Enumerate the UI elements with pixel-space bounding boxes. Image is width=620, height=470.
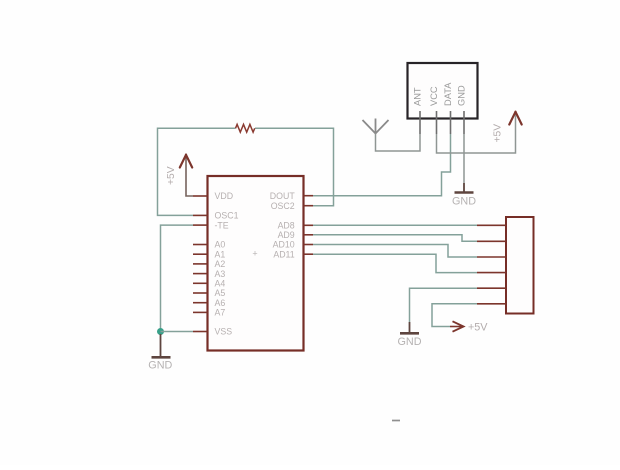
svg-text:+5V: +5V [468,322,488,334]
connector pin 3 [477,256,506,258]
RF module pin DATA [450,111,452,134]
RF module body [408,63,478,119]
junction dot [157,328,164,335]
svg-text:VSS: VSS [215,327,233,337]
IC pin DOUT [304,195,314,197]
resistor R1 [236,124,255,132]
wire OSC1 to resistor (left loop) [158,128,236,215]
svg-text:OSC2: OSC2 [271,201,295,211]
svg-text:GND: GND [148,360,172,372]
svg-text:A3: A3 [215,269,226,279]
svg-text:OSC1: OSC1 [215,211,239,221]
IC pin -TE [193,224,208,226]
IC pin A1 [193,253,208,255]
connector pin 1 [477,224,506,226]
IC pin A2 [193,263,208,265]
svg-text:ANT: ANT [413,87,423,106]
svg-text:AD9: AD9 [278,230,295,240]
IC pin A7 [193,311,208,313]
RF module pin ANT [419,111,421,134]
wire resistor to OSC2 (right riser) [255,128,334,205]
connector SV1 body [506,217,534,314]
svg-text:VDD: VDD [215,191,234,201]
svg-text:A4: A4 [215,279,226,289]
svg-text:+5V: +5V [166,166,177,185]
svg-text:+5V: +5V [493,124,504,143]
connector pin 2 [477,240,506,242]
svg-text:GND: GND [452,196,476,208]
wire AD9 to pin 2 [313,235,477,242]
RF module pin VCC [436,111,438,134]
ground GND (left) [152,334,171,359]
connector pin 4 [477,272,506,274]
IC pin A6 [193,302,208,304]
wire junction to VSS [161,331,194,333]
connector pin 6 [477,303,506,305]
svg-text:-TE: -TE [215,220,229,230]
wire AD8 to pin 1 [313,224,477,226]
svg-text:DATA: DATA [443,82,453,106]
wire ANT to antenna [376,134,421,152]
IC pin A4 [193,282,208,284]
RF module pin GND [463,111,465,134]
stray mark [392,420,400,422]
svg-text:+: + [252,249,257,259]
antenna E1 [363,119,389,134]
IC pin A3 [193,273,208,275]
svg-text:A6: A6 [215,298,226,308]
wire VDD to +5V [186,154,193,197]
svg-text:A2: A2 [215,259,226,269]
IC pin VDD [193,195,208,197]
IC pin AD8 [304,224,314,226]
wire pin 5 to GND [410,288,478,322]
ground GND (module) [455,183,474,194]
+5V supply arrow (VCC) [509,112,521,125]
+5V supply arrow (VDD) [180,155,192,168]
connector pin 5 [477,287,506,289]
+5V supply arrow (right-pointing) [450,321,464,331]
svg-text:GND: GND [398,336,422,348]
IC pin OSC2 [304,205,314,207]
wire AD11 to pin 4 [313,254,477,272]
svg-text:A5: A5 [215,288,226,298]
wire AD10 to pin 3 [313,245,477,258]
IC pin A5 [193,292,208,294]
ground GND (middle) [400,322,419,335]
encoder IC U1 body [208,176,304,351]
wire pin 6 to +5V [432,304,477,327]
wire DOUT to DATA [313,134,451,196]
svg-text:A7: A7 [215,308,226,318]
wire -TE down [161,225,194,331]
IC pin AD10 [304,244,314,246]
svg-text:AD10: AD10 [273,240,295,250]
IC pin AD9 [304,234,314,236]
wire VCC to +5V [437,112,516,154]
wire module GND down [463,134,465,183]
svg-text:AD11: AD11 [273,249,294,259]
svg-text:A0: A0 [215,240,226,250]
IC pin OSC1 [193,214,208,216]
IC pin VSS [193,331,208,333]
svg-text:A1: A1 [215,249,226,259]
IC pin AD11 [304,253,314,255]
svg-text:GND: GND [457,85,467,106]
IC pin A0 [193,244,208,246]
svg-text:VCC: VCC [429,86,439,106]
svg-text:DOUT: DOUT [270,191,296,201]
svg-text:AD8: AD8 [278,221,295,231]
